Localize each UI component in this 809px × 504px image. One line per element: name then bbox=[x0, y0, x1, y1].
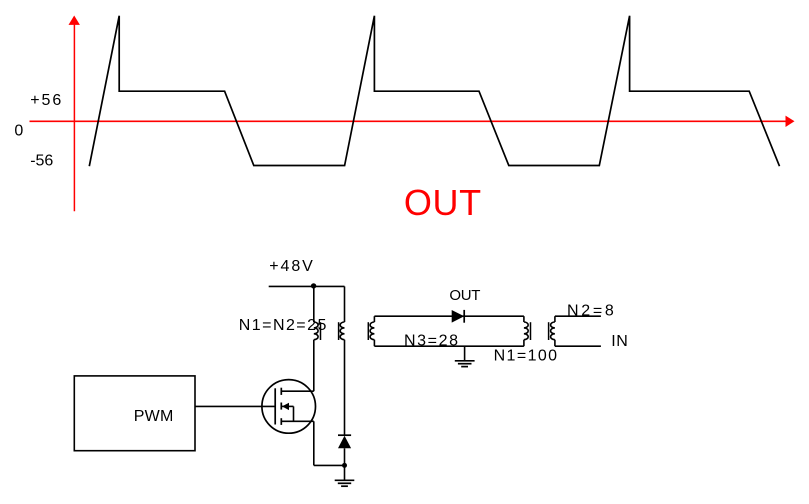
rectifier diode D2 bbox=[452, 310, 465, 323]
output loop top wire bbox=[374, 315, 524, 317]
+48V rail wire bbox=[269, 285, 345, 287]
transformer T1 winding N1 bbox=[314, 322, 318, 340]
T1 winding N3 stub bottom bbox=[373, 340, 375, 347]
junction node on +48V rail bbox=[311, 283, 316, 288]
wire winding N1 to MOSFET drain bbox=[313, 340, 315, 392]
wire winding N2 to clamp diode bbox=[344, 340, 346, 436]
svg-text:N2=8: N2=8 bbox=[567, 302, 617, 319]
svg-text:0: 0 bbox=[14, 122, 23, 139]
T2 core line (N2 side) bbox=[548, 322, 550, 340]
ground G1 bbox=[335, 465, 355, 486]
T2 winding N2 stub bottom bbox=[554, 340, 556, 347]
wire source down bbox=[313, 421, 315, 465]
output loop bottom wire bbox=[374, 345, 524, 347]
svg-text:PWM: PWM bbox=[134, 408, 174, 425]
T2 winding N2 stub top bbox=[554, 316, 556, 322]
svg-text:+48V: +48V bbox=[269, 258, 314, 275]
T2 core line (N1 side) bbox=[530, 322, 532, 340]
clamp diode D1 bbox=[338, 435, 351, 465]
svg-text:OUT: OUT bbox=[404, 182, 482, 223]
Q1 source tap bbox=[281, 420, 314, 422]
transformer T1 winding N2 bbox=[340, 322, 344, 340]
T1 core line (N2 side) bbox=[338, 322, 340, 340]
IN port bottom wire bbox=[555, 345, 601, 347]
junction node at clamp/source bbox=[342, 463, 347, 468]
Q1 channel segment (drain) bbox=[280, 388, 282, 395]
wire rail to winding N1 bbox=[313, 286, 315, 322]
PWM box bbox=[74, 376, 195, 451]
Q1 channel segment (body) bbox=[280, 403, 282, 410]
svg-text:-56: -56 bbox=[30, 153, 53, 170]
T2 winding N1 stub top bbox=[523, 316, 525, 322]
wire rail to winding N2 bbox=[344, 286, 346, 322]
Q1 gate plate bbox=[274, 388, 276, 424]
wire PWM to gate bbox=[195, 405, 275, 407]
svg-text:N3=28: N3=28 bbox=[404, 332, 460, 349]
T1 winding N3 stub top bbox=[373, 316, 375, 322]
MOSFET Q1 body circle bbox=[262, 380, 316, 434]
transformer T1 winding N3 bbox=[370, 322, 374, 340]
svg-text:OUT: OUT bbox=[449, 287, 480, 304]
transformer T2 winding N1 bbox=[524, 322, 528, 340]
Q1 channel segment (source) bbox=[280, 418, 282, 425]
Q1 drain tap bbox=[281, 390, 314, 392]
transformer T2 winding N2 bbox=[551, 322, 555, 340]
Q1 body tap with arrow bbox=[282, 403, 294, 422]
svg-text:IN: IN bbox=[611, 333, 628, 350]
T1 core line (N3 side) bbox=[367, 322, 369, 340]
wire source to clamp node bbox=[314, 464, 345, 466]
x-axis (red) bbox=[30, 116, 795, 127]
svg-text:N1=N2=25: N1=N2=25 bbox=[239, 317, 328, 334]
svg-text:+56: +56 bbox=[30, 92, 63, 109]
T1 core line (N1 side) bbox=[320, 322, 322, 340]
ground G2 bbox=[455, 346, 475, 366]
T2 winding N1 stub bottom bbox=[523, 340, 525, 347]
y-axis (red) bbox=[69, 16, 80, 212]
IN port top wire bbox=[555, 315, 601, 317]
svg-text:N1=100: N1=100 bbox=[494, 348, 559, 365]
waveform trace bbox=[89, 16, 779, 166]
